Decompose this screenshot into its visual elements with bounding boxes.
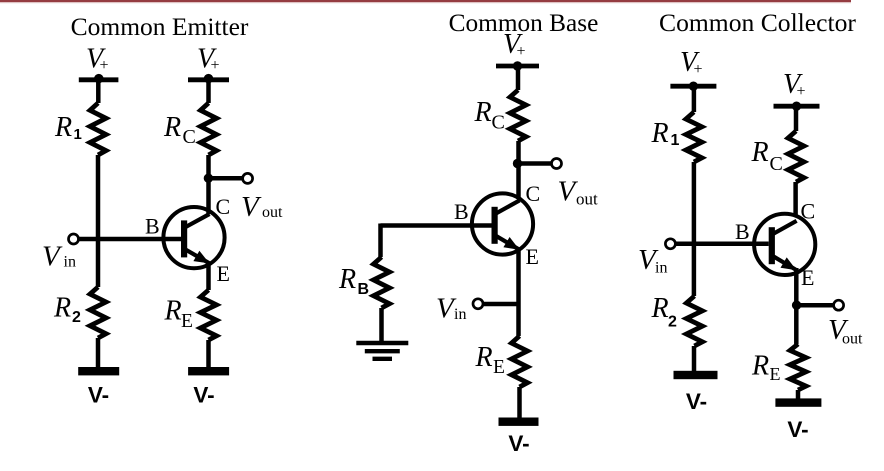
svg-text:E: E — [526, 244, 539, 269]
svg-text:C: C — [801, 199, 816, 224]
svg-text:R: R — [338, 264, 356, 295]
svg-text:R: R — [53, 293, 71, 324]
svg-text:+: + — [100, 57, 109, 74]
resistor RE — [201, 290, 217, 340]
svg-text:2: 2 — [72, 309, 81, 326]
node: collector/output junction dot — [204, 174, 213, 183]
junction dot on V+ bar (CC right) — [792, 102, 801, 111]
svg-text:Common Collector: Common Collector — [659, 8, 856, 37]
Vin terminal circle (CC) — [665, 239, 675, 249]
svg-text:C: C — [492, 112, 505, 134]
svg-text:R: R — [164, 296, 182, 327]
V- bar (left rail, CE) — [78, 367, 119, 375]
resistor RB — [374, 257, 390, 308]
svg-text:E: E — [493, 357, 505, 378]
svg-text:V-: V- — [88, 383, 109, 408]
wire RE to V- bar (CC) — [796, 390, 801, 400]
V+ supply bar (right rail, CE) — [188, 77, 229, 82]
V- bar (left rail, CC) — [674, 371, 718, 379]
V- bar (right rail, CE) — [188, 367, 229, 375]
resistor R2 (CC) — [686, 296, 702, 346]
wire RE to V- bar — [206, 340, 211, 369]
resistor RC (CB) — [510, 90, 526, 141]
wire Vin to base — [79, 237, 181, 242]
svg-text:R: R — [751, 137, 769, 168]
resistor R1 — [90, 103, 106, 155]
svg-text:Common Base: Common Base — [449, 9, 599, 37]
svg-text:in: in — [454, 306, 466, 323]
V+ supply bar (CB) — [496, 64, 539, 69]
resistor RC (CC) — [788, 131, 804, 182]
svg-text:V-: V- — [508, 431, 529, 456]
resistor RC — [201, 103, 217, 155]
base wire left (CB) — [381, 223, 492, 228]
svg-text:in: in — [64, 253, 76, 270]
svg-text:+: + — [211, 57, 220, 74]
svg-text:2: 2 — [668, 313, 677, 330]
wire RB to ground — [379, 308, 384, 343]
svg-text:E: E — [181, 311, 193, 332]
resistor R1 (CC) — [686, 112, 702, 162]
V- bar (right rail, CC) — [775, 398, 821, 406]
V+ supply bar (left rail, CE) — [79, 77, 119, 82]
node: collector/output junction dot (CB) — [513, 159, 522, 168]
wire RC to collector (CC) — [793, 182, 798, 216]
junction dot on V+ bar (right) — [204, 74, 213, 83]
transistor Q1 (NPN) — [163, 207, 224, 268]
svg-text:R: R — [163, 112, 181, 143]
wire emitter to output node (CC) — [794, 268, 799, 305]
svg-text:R: R — [474, 97, 492, 128]
svg-text:in: in — [655, 260, 667, 277]
wire R1 to R2 (CC) — [692, 162, 697, 296]
svg-text:E: E — [770, 364, 781, 384]
svg-text:R: R — [651, 293, 669, 324]
junction dot on V+ bar (CB) — [513, 61, 522, 70]
node: emitter/output junction dot (CC) — [792, 301, 801, 310]
svg-text:R: R — [751, 350, 769, 381]
transistor Q2 (NPN) — [472, 193, 533, 254]
wire R2 to V- bar (CC) — [692, 346, 697, 372]
wire V+ bar to R1 — [96, 79, 101, 103]
V+ supply bar (right rail, CC) — [774, 104, 820, 109]
svg-text:C: C — [770, 153, 783, 175]
svg-text:V-: V- — [787, 417, 808, 442]
svg-text:R: R — [54, 112, 72, 143]
Vout terminal circle (CC) — [834, 300, 844, 310]
Vout terminal circle (CB) — [552, 159, 562, 169]
wire emitter to RE — [206, 263, 211, 290]
wire emitter down (CB) — [516, 250, 521, 337]
svg-text:+: + — [517, 43, 526, 60]
svg-text:C: C — [216, 194, 231, 219]
resistor RE (CB) — [512, 336, 528, 387]
wire junction to Vout terminal — [209, 176, 243, 181]
svg-text:+: + — [694, 61, 703, 78]
svg-text:out: out — [842, 331, 863, 348]
svg-text:V-: V- — [686, 389, 707, 414]
wire V+ bar to RC — [516, 66, 521, 90]
svg-text:R: R — [651, 118, 669, 149]
svg-text:E: E — [801, 265, 814, 290]
V+ supply bar (left rail, CC) — [670, 84, 716, 89]
junction dot on V+ bar (CC left) — [689, 82, 698, 91]
svg-text:E: E — [217, 261, 230, 286]
svg-text:+: + — [797, 83, 806, 100]
Vin terminal circle — [69, 234, 79, 244]
wire RC to collector node (CB) — [516, 141, 521, 199]
wire RC to collector node — [206, 155, 211, 214]
resistor R2 — [90, 287, 106, 338]
top red rule — [0, 0, 851, 2]
wire junction to Vout terminal (CB) — [518, 161, 552, 166]
svg-text:B: B — [145, 214, 160, 239]
svg-text:V-: V- — [193, 383, 214, 408]
svg-text:R: R — [475, 342, 493, 373]
wire R2 to V- bar — [96, 338, 101, 369]
wire Vin to emitter rail (CB) — [483, 302, 519, 307]
ground symbol — [356, 343, 408, 359]
svg-text:Common Emitter: Common Emitter — [71, 12, 249, 41]
wire RE to V- bar (CB) — [517, 387, 522, 419]
svg-text:B: B — [454, 199, 469, 224]
svg-text:C: C — [183, 126, 196, 148]
wire V+ bar to RC — [206, 79, 211, 103]
V- bar (CB) — [499, 418, 539, 426]
resistor RE (CC) — [790, 344, 806, 390]
base wire corner down to RB — [378, 224, 383, 258]
svg-text:B: B — [735, 219, 750, 244]
svg-text:B: B — [358, 281, 370, 298]
wire junction to Vout terminal (CC) — [796, 303, 833, 308]
svg-text:1: 1 — [671, 132, 680, 149]
Vout terminal circle — [243, 173, 253, 183]
transistor Q3 (NPN) — [754, 214, 815, 275]
svg-text:out: out — [576, 189, 598, 208]
Vin terminal circle (CB) — [473, 299, 483, 309]
wire junction to RE (CC) — [794, 305, 799, 344]
svg-text:C: C — [526, 181, 541, 206]
svg-text:out: out — [262, 204, 283, 221]
wire Vin to base (CC) — [676, 242, 769, 247]
svg-text:1: 1 — [74, 126, 82, 143]
wire R1 to R2 (through Vin node) — [96, 155, 101, 287]
wire V+ bar to R1 (CC) — [692, 86, 697, 112]
junction dot on V+ bar — [94, 74, 103, 83]
wire V+ bar to RC (CC) — [794, 106, 799, 131]
